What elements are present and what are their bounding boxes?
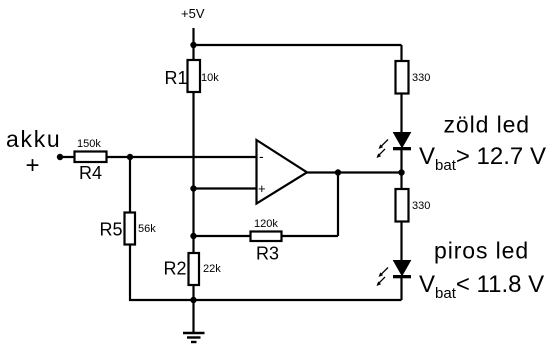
node output / feedback junction [335,169,341,175]
svg-text:330: 330 [412,72,430,84]
svg-text:-: - [259,148,264,164]
wire ground stem [192,300,194,333]
resistor 330 lower [396,189,431,222]
resistor R4 [75,138,107,183]
svg-text:R4: R4 [79,163,102,183]
resistor 330 upper [396,61,431,94]
svg-text:+: + [258,181,266,196]
svg-text:R2: R2 [164,259,187,279]
node akku terminal [57,154,63,160]
svg-text:120k: 120k [254,218,278,230]
svg-text:R1: R1 [165,68,188,88]
wire LED2 to bottom rail [400,276,402,300]
wire op-amp output [307,171,402,173]
svg-text:56k: 56k [138,223,156,235]
svg-text:150k: 150k [77,138,101,150]
wire +5V stub [192,28,194,45]
resistor R5 [100,213,157,245]
wire R3 left segment [194,235,251,237]
wire feedback vertical [337,173,339,237]
node divider / R3 junction [190,233,196,239]
wire left vertical R1 to R2 [192,92,194,253]
LED D1 (green) [377,133,412,159]
node divider / + input junction [190,185,196,191]
wire 330b to LED2 [400,222,402,261]
LED D2 (red) [377,261,412,287]
svg-text:Vbat< 11.8 V: Vbat< 11.8 V [419,271,544,302]
resistor R2 [164,253,222,285]
wire R2 bottom stub [192,285,194,301]
node ground junction [190,297,196,303]
op-amp U1 [257,140,308,204]
svg-text:akku: akku [6,126,61,152]
wire non-inverting input [194,187,257,189]
wire R1 top stub [192,45,194,60]
svg-text:R3: R3 [256,244,279,264]
svg-text:zöld led: zöld led [444,112,530,138]
wire akku to inverting input [60,156,256,158]
svg-text:22k: 22k [203,263,221,275]
svg-text:+: + [26,152,40,179]
wire right vertical top to 330a [400,45,402,61]
wire LED1 to 330b [400,149,402,189]
wire 330a to LED1 [400,94,402,133]
svg-text:+5V: +5V [181,6,205,21]
wire top rail [194,44,402,46]
resistor R3 [251,218,282,264]
wire bottom rail [129,299,402,301]
svg-text:10k: 10k [201,72,219,84]
resistor R1 [165,60,220,92]
node +5V junction [190,42,196,48]
svg-text:330: 330 [412,200,430,212]
wire R5 branch vertical [129,157,131,301]
node output / LED chain junction [398,169,404,175]
svg-text:Vbat> 12.7 V: Vbat> 12.7 V [419,143,546,174]
ground [183,333,205,342]
node R4/R5 junction [127,154,133,160]
svg-text:piros led: piros led [434,238,529,264]
wire R3 right segment [282,235,338,237]
svg-text:R5: R5 [100,220,123,240]
